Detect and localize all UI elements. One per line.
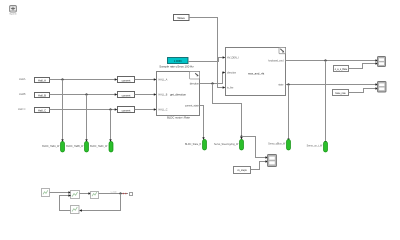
wire HallB row bbox=[50, 93, 118, 95]
block convert 3 bbox=[118, 107, 135, 113]
wire R3 to S3 bbox=[251, 160, 269, 169]
block Hall_A bbox=[35, 78, 50, 83]
svg-text:Servo_SteeringAng_W: Servo_SteeringAng_W bbox=[214, 143, 239, 146]
wire HallB down to LED bbox=[85, 95, 87, 143]
loop block A source bbox=[42, 189, 50, 197]
subsystem U1 get_direction bbox=[157, 72, 200, 120]
svg-text:HallA: HallA bbox=[19, 77, 26, 81]
junction HallB tap bbox=[85, 93, 87, 95]
LED BLDC_State_R bbox=[185, 140, 207, 151]
svg-text:1.0066: 1.0066 bbox=[174, 59, 182, 63]
subsystem U2 state machine bbox=[226, 48, 286, 96]
wire HallC row bbox=[50, 108, 118, 110]
svg-text:System: System bbox=[9, 12, 16, 15]
svg-text:Servo_uBlox_W: Servo_uBlox_W bbox=[268, 143, 286, 146]
concat sink S2 bbox=[378, 82, 387, 93]
svg-text:BLDC_State_R: BLDC_State_R bbox=[185, 143, 202, 146]
block rate R1 bbox=[334, 66, 349, 72]
svg-text:direction: direction bbox=[190, 82, 200, 85]
svg-text:Hall C: Hall C bbox=[18, 107, 26, 111]
svg-text:Hall_A: Hall_A bbox=[38, 79, 46, 83]
concat sink S1 bbox=[378, 57, 386, 67]
junction HallA tap bbox=[61, 78, 63, 80]
svg-text:HALL_B: HALL_B bbox=[159, 94, 168, 97]
wire A to B bbox=[50, 191, 72, 193]
wire Wave to U2 ports 2 and 3 bbox=[189, 18, 225, 89]
svg-text:Servo_ux_t_W: Servo_ux_t_W bbox=[307, 145, 323, 148]
svg-text:o_a_o_Rate: o_a_o_Rate bbox=[335, 68, 348, 71]
LED Servo_SteeringAng_W bbox=[214, 140, 244, 151]
svg-text:max_and_rht: max_and_rht bbox=[248, 71, 265, 75]
svg-text:Sample rate uSecs 100 Hz: Sample rate uSecs 100 Hz bbox=[159, 65, 194, 69]
concat sink S3 bbox=[268, 155, 277, 167]
svg-text:state: state bbox=[278, 83, 284, 86]
wire U1 current_state down to LED bbox=[200, 106, 205, 141]
wire convert2 to U1 port HALL_B bbox=[135, 93, 157, 95]
block rate R2 bbox=[333, 90, 349, 96]
block Hall_B bbox=[35, 93, 50, 98]
wire HallA row bbox=[50, 78, 118, 80]
svg-text:convert: convert bbox=[122, 108, 131, 112]
svg-text:base_rate: base_rate bbox=[335, 92, 346, 95]
wire D to B second input bbox=[60, 194, 72, 210]
svg-text:xx_steps: xx_steps bbox=[237, 169, 247, 172]
svg-text:HV_DEN_I: HV_DEN_I bbox=[227, 57, 239, 60]
LED BLDC_HallB_W bbox=[66, 142, 88, 153]
wire HallC down to LED bbox=[109, 110, 111, 143]
wire U1 direction out to junction bbox=[200, 82, 269, 158]
svg-text:current_state: current_state bbox=[185, 105, 200, 108]
block rate R3 bbox=[234, 167, 251, 174]
svg-text:BLDC_HallC_W: BLDC_HallC_W bbox=[90, 145, 108, 148]
svg-text:HallB: HallB bbox=[19, 92, 26, 96]
wire R2 to S2 bbox=[349, 87, 379, 92]
svg-text:Hall_B: Hall_B bbox=[38, 94, 46, 98]
svg-text:Hall_C: Hall_C bbox=[38, 109, 46, 113]
svg-text:keyboard_cmd: keyboard_cmd bbox=[268, 60, 284, 63]
block convert 2 bbox=[118, 92, 135, 98]
LED BLDC_HallA_W bbox=[42, 142, 64, 153]
junction HallC tap bbox=[109, 108, 111, 110]
wire cyan constant to U2 port1 bbox=[188, 56, 225, 61]
LED Servo_uBlox_W bbox=[268, 140, 290, 151]
constant block (cyan) sample time bbox=[159, 58, 194, 69]
wire convert3 to U1 port HALL_C bbox=[135, 108, 157, 110]
feedback wire down and left into D bbox=[79, 194, 120, 212]
svg-text:BLDC motor t Rate: BLDC motor t Rate bbox=[167, 116, 190, 120]
wire convert1 to U1 port HALL_A bbox=[135, 78, 157, 80]
wire U2 keyboard_cmd out to concat S1 and LED g7 bbox=[286, 59, 379, 144]
block convert 1 bbox=[118, 77, 135, 83]
block Hall_C bbox=[35, 108, 50, 113]
svg-text:direction: direction bbox=[227, 72, 237, 75]
wire U2 state out to concat S2 and LED g6 bbox=[286, 83, 379, 141]
loop block B bbox=[71, 191, 80, 199]
svg-text:convert: convert bbox=[122, 93, 131, 97]
block Wave bbox=[174, 15, 190, 21]
loop block D delay bbox=[71, 206, 80, 214]
svg-text:is_fire: is_fire bbox=[227, 87, 234, 90]
wire R1 to S1 bbox=[349, 62, 379, 68]
svg-text:convert: convert bbox=[122, 78, 131, 82]
svg-text:HALL_A: HALL_A bbox=[159, 79, 168, 82]
wire C to terminator with junction bbox=[99, 190, 133, 195]
wire HallA down to LED bbox=[61, 80, 63, 143]
model badge icon bbox=[9, 6, 16, 16]
svg-text:s_rate: s_rate bbox=[110, 190, 117, 193]
LED Servo_ux_t_W bbox=[307, 142, 328, 153]
svg-text:BLDC_HallB_W: BLDC_HallB_W bbox=[66, 145, 84, 148]
svg-text:BLDC_HallA_W: BLDC_HallA_W bbox=[42, 145, 60, 148]
LED BLDC_HallC_W bbox=[90, 142, 113, 153]
svg-text:get_direction: get_direction bbox=[170, 93, 186, 97]
svg-text:HALL_C: HALL_C bbox=[159, 109, 168, 112]
wire B to C bbox=[80, 192, 92, 194]
loop block C bbox=[91, 192, 99, 199]
svg-text:Wave: Wave bbox=[177, 16, 185, 20]
